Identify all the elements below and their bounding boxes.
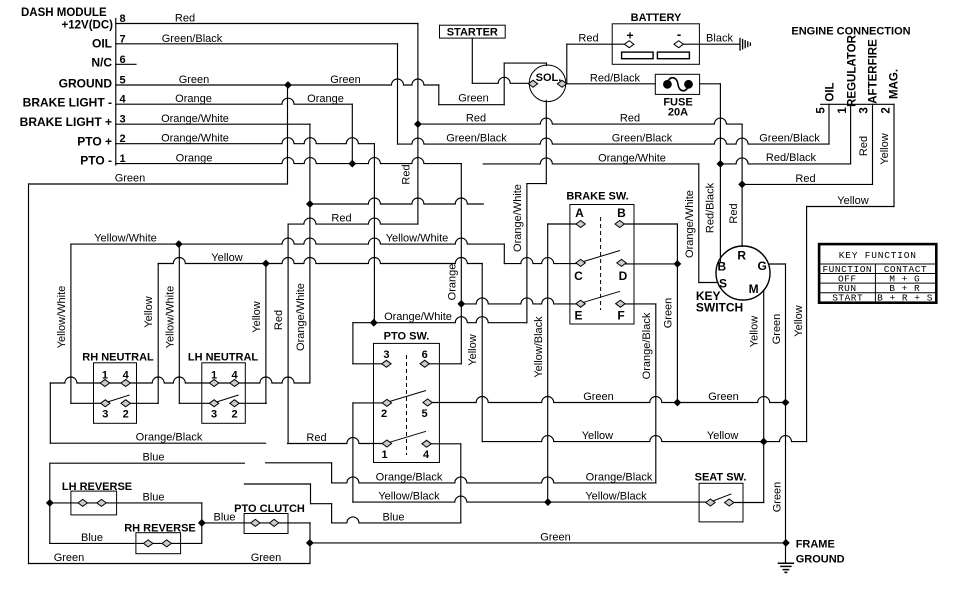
- svg-text:Yellow/White: Yellow/White: [94, 233, 157, 245]
- svg-text:8: 8: [119, 13, 125, 25]
- svg-text:4: 4: [423, 449, 430, 461]
- svg-text:Green: Green: [540, 531, 571, 543]
- svg-text:PTO CLUTCH: PTO CLUTCH: [234, 503, 305, 515]
- svg-text:Yellow: Yellow: [467, 334, 479, 365]
- svg-text:7: 7: [119, 33, 125, 45]
- svg-text:1: 1: [837, 107, 849, 114]
- svg-text:Yellow: Yellow: [251, 301, 263, 332]
- svg-text:2: 2: [381, 408, 387, 420]
- svg-text:Green/Black: Green/Black: [446, 133, 507, 145]
- svg-text:G: G: [758, 259, 767, 273]
- svg-text:PTO SW.: PTO SW.: [384, 331, 430, 343]
- svg-text:Blue: Blue: [81, 532, 103, 544]
- svg-text:Orange/Black: Orange/Black: [136, 432, 203, 444]
- svg-text:B: B: [717, 259, 726, 273]
- svg-text:GROUND: GROUND: [59, 77, 113, 91]
- svg-text:6: 6: [119, 54, 125, 66]
- svg-text:Black: Black: [706, 33, 733, 45]
- svg-text:Yellow/Black: Yellow/Black: [533, 316, 545, 378]
- svg-text:FRAME: FRAME: [796, 539, 835, 551]
- svg-text:Green: Green: [771, 314, 783, 345]
- svg-text:E: E: [574, 309, 582, 323]
- svg-text:3: 3: [119, 114, 125, 126]
- svg-text:Yellow: Yellow: [582, 430, 613, 442]
- svg-text:Yellow: Yellow: [707, 430, 738, 442]
- svg-text:Red: Red: [401, 164, 413, 184]
- svg-text:C: C: [574, 269, 583, 283]
- svg-text:2: 2: [880, 107, 892, 113]
- svg-text:LH REVERSE: LH REVERSE: [62, 481, 132, 493]
- svg-text:Orange/White: Orange/White: [161, 113, 229, 125]
- svg-text:Orange/White: Orange/White: [512, 184, 524, 252]
- svg-text:Red: Red: [795, 173, 815, 185]
- svg-text:3: 3: [211, 409, 217, 421]
- svg-text:Red: Red: [306, 432, 326, 444]
- svg-text:3: 3: [859, 107, 871, 113]
- svg-text:5: 5: [816, 107, 828, 114]
- svg-text:Red: Red: [175, 13, 195, 25]
- svg-text:Blue: Blue: [142, 452, 164, 464]
- svg-text:2: 2: [119, 133, 125, 145]
- svg-text:LH NEUTRAL: LH NEUTRAL: [188, 352, 259, 364]
- svg-text:5: 5: [119, 75, 125, 87]
- svg-text:BRAKE SW.: BRAKE SW.: [566, 191, 628, 203]
- svg-text:Green: Green: [179, 74, 210, 86]
- svg-text:Orange/White: Orange/White: [684, 190, 696, 258]
- svg-text:1: 1: [119, 153, 125, 165]
- svg-text:REGULATOR: REGULATOR: [847, 34, 859, 106]
- svg-text:Red: Red: [728, 203, 740, 223]
- svg-text:4: 4: [119, 94, 126, 106]
- svg-text:2: 2: [123, 409, 129, 421]
- svg-text:Green: Green: [708, 391, 739, 403]
- svg-text:Red: Red: [331, 213, 351, 225]
- svg-text:Red: Red: [273, 310, 285, 330]
- svg-text:Yellow/White: Yellow/White: [386, 233, 449, 245]
- svg-text:D: D: [619, 269, 628, 283]
- svg-text:OIL: OIL: [92, 37, 112, 51]
- svg-text:Yellow: Yellow: [749, 316, 761, 347]
- svg-text:3: 3: [102, 409, 108, 421]
- svg-text:Green: Green: [54, 552, 85, 564]
- svg-text:Orange/White: Orange/White: [161, 133, 229, 145]
- svg-text:Orange/Black: Orange/Black: [376, 471, 443, 483]
- svg-text:3: 3: [383, 349, 389, 361]
- svg-text:GROUND: GROUND: [796, 554, 845, 566]
- svg-text:Orange/Black: Orange/Black: [586, 471, 653, 483]
- svg-text:Orange: Orange: [446, 264, 458, 301]
- svg-text:Yellow: Yellow: [793, 305, 805, 336]
- svg-text:5: 5: [421, 408, 427, 420]
- svg-text:2: 2: [231, 409, 237, 421]
- svg-text:Orange: Orange: [176, 153, 213, 165]
- svg-text:Orange/White: Orange/White: [598, 152, 666, 164]
- svg-text:Green: Green: [583, 391, 614, 403]
- svg-text:BRAKE LIGHT -: BRAKE LIGHT -: [23, 96, 112, 110]
- svg-text:SWITCH: SWITCH: [696, 300, 743, 314]
- svg-text:Green: Green: [772, 482, 784, 513]
- svg-text:Yellow/White: Yellow/White: [164, 286, 176, 349]
- svg-text:RH REVERSE: RH REVERSE: [124, 522, 196, 534]
- svg-text:+: +: [626, 29, 633, 43]
- svg-text:Orange: Orange: [175, 93, 212, 105]
- svg-text:Red/Black: Red/Black: [704, 182, 716, 233]
- svg-text:Yellow: Yellow: [879, 133, 891, 164]
- svg-text:B: B: [617, 206, 626, 220]
- svg-text:Green: Green: [662, 298, 674, 329]
- svg-text:Orange/Black: Orange/Black: [641, 312, 653, 379]
- svg-text:Yellow/Black: Yellow/Black: [378, 491, 440, 503]
- svg-text:Blue: Blue: [213, 511, 235, 523]
- svg-text:Orange/White: Orange/White: [384, 311, 452, 323]
- svg-text:MAG.: MAG.: [889, 69, 901, 99]
- svg-text:SEAT SW.: SEAT SW.: [695, 471, 747, 483]
- svg-text:KEY FUNCTION: KEY FUNCTION: [839, 250, 917, 261]
- svg-text:STARTER: STARTER: [447, 26, 498, 38]
- svg-text:OIL: OIL: [825, 82, 837, 101]
- svg-text:Red/Black: Red/Black: [590, 72, 641, 84]
- svg-text:Green/Black: Green/Black: [162, 33, 223, 45]
- svg-text:Red: Red: [620, 113, 640, 125]
- svg-text:-: -: [677, 27, 681, 42]
- svg-text:Blue: Blue: [382, 511, 404, 523]
- svg-text:A: A: [575, 206, 584, 220]
- svg-text:20A: 20A: [668, 106, 688, 118]
- svg-text:Yellow: Yellow: [143, 296, 155, 327]
- svg-text:Red: Red: [466, 113, 486, 125]
- svg-text:Green: Green: [458, 93, 489, 105]
- svg-text:Blue: Blue: [142, 491, 164, 503]
- svg-text:Green/Black: Green/Black: [612, 133, 673, 145]
- svg-text:Yellow/Black: Yellow/Black: [585, 491, 647, 503]
- svg-text:6: 6: [422, 349, 428, 361]
- svg-text:BRAKE LIGHT +: BRAKE LIGHT +: [20, 115, 112, 129]
- svg-text:AFTERFIRE: AFTERFIRE: [868, 39, 880, 104]
- svg-text:Orange: Orange: [307, 93, 344, 105]
- svg-text:BATTERY: BATTERY: [631, 12, 682, 24]
- svg-text:R: R: [737, 248, 746, 262]
- svg-text:M: M: [749, 282, 759, 296]
- svg-text:PTO +: PTO +: [77, 135, 112, 149]
- svg-text:Green: Green: [251, 552, 282, 564]
- svg-text:Orange/White: Orange/White: [295, 283, 307, 351]
- svg-text:Green: Green: [115, 173, 146, 185]
- svg-text:Red: Red: [858, 136, 870, 156]
- svg-text:1: 1: [381, 449, 387, 461]
- svg-text:Green/Black: Green/Black: [759, 133, 820, 145]
- svg-text:N/C: N/C: [91, 56, 112, 70]
- svg-text:DASH MODULE: DASH MODULE: [21, 7, 107, 19]
- svg-text:F: F: [617, 309, 624, 323]
- svg-text:RH NEUTRAL: RH NEUTRAL: [82, 352, 154, 364]
- svg-text:Yellow/White: Yellow/White: [56, 286, 68, 349]
- svg-text:Green: Green: [330, 74, 361, 86]
- svg-text:START: START: [832, 293, 863, 304]
- svg-text:B + R + S: B + R + S: [877, 293, 933, 304]
- svg-text:Red/Black: Red/Black: [766, 152, 817, 164]
- svg-text:Yellow: Yellow: [837, 195, 868, 207]
- svg-text:SOL.: SOL.: [536, 72, 562, 84]
- svg-text:Yellow: Yellow: [211, 252, 242, 264]
- svg-text:PTO -: PTO -: [80, 154, 112, 168]
- svg-text:Red: Red: [578, 33, 598, 45]
- svg-text:+12V(DC): +12V(DC): [62, 20, 114, 32]
